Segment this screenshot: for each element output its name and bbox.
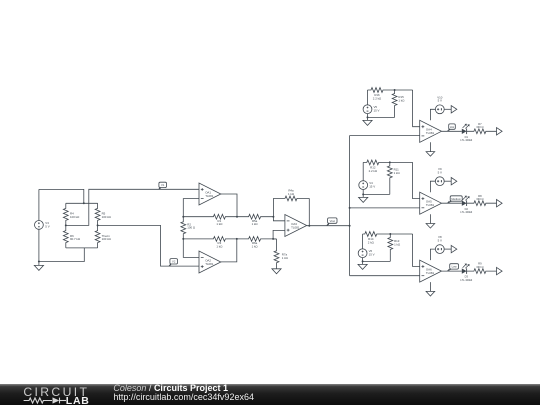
op-amp OA1 TL081 bbox=[199, 183, 221, 205]
svg-text:LTL-30/E3: LTL-30/E3 bbox=[460, 278, 472, 282]
resistor R7a 1k to ground bbox=[274, 239, 279, 269]
supply arrow flag bbox=[451, 245, 457, 252]
svg-text:15 V: 15 V bbox=[374, 109, 380, 113]
svg-text:V2: V2 bbox=[172, 260, 176, 264]
resistor R9 330 Ohm bbox=[467, 269, 497, 274]
ground at OA6 bbox=[426, 291, 435, 296]
svg-text:Hot: Hot bbox=[450, 125, 454, 129]
svg-text:5 V: 5 V bbox=[45, 225, 49, 229]
wire bus to OA4 inverting input bbox=[350, 135, 420, 137]
svg-text:1 kΩ: 1 kΩ bbox=[394, 243, 401, 247]
wire divider bottom rail bbox=[363, 260, 391, 262]
svg-text:TL081: TL081 bbox=[205, 194, 214, 198]
svg-text:Vout: Vout bbox=[330, 219, 336, 223]
op-amp OA4 TL081 comparator bbox=[420, 120, 442, 142]
svg-text:100 Ω: 100 Ω bbox=[187, 226, 196, 230]
output arrow flag bbox=[497, 128, 503, 135]
svg-text:2.2 kΩ: 2.2 kΩ bbox=[373, 96, 382, 100]
wire OA3 output to bus bbox=[307, 225, 350, 227]
wire R5a node to OA3 inverting input bbox=[273, 198, 285, 220]
net flag Low bbox=[450, 264, 459, 269]
node bridge mid-left bbox=[65, 224, 67, 226]
wire divider bottom rail bbox=[363, 193, 390, 195]
wire OA4 output to LED bbox=[442, 130, 462, 132]
resistor R14 2 k&#937; divider top bbox=[363, 232, 413, 237]
svg-text:5 V: 5 V bbox=[438, 99, 442, 103]
footer title text bbox=[113, 384, 228, 393]
supply arrow flag bbox=[451, 178, 457, 185]
op-amp OA5 V- ground pin bbox=[429, 214, 431, 223]
resistor R5 100k bbox=[95, 203, 100, 225]
op-amp OA6 V- ground pin bbox=[429, 282, 431, 291]
svg-text:LTL-30/E3: LTL-30/E3 bbox=[460, 210, 472, 214]
wire mid-left tap to V1 net bbox=[66, 189, 199, 225]
svg-text:TL081: TL081 bbox=[205, 262, 214, 266]
op-amp OA5 TL081 comparator bbox=[420, 192, 442, 214]
svg-text:1 kΩ: 1 kΩ bbox=[216, 222, 223, 226]
wire divider to op-amp non-inverting input bbox=[413, 234, 420, 267]
output arrow flag bbox=[497, 200, 503, 207]
resistor R3 1k bbox=[183, 237, 237, 242]
supply arrow flag bbox=[451, 106, 457, 113]
svg-text:1 kΩ: 1 kΩ bbox=[288, 192, 295, 196]
svg-text:5 V: 5 V bbox=[438, 171, 442, 175]
output arrow flag bbox=[497, 267, 503, 274]
resistor R1 1k bbox=[183, 214, 237, 219]
svg-text:V1: V1 bbox=[161, 183, 165, 187]
wire divider to op-amp non-inverting input bbox=[413, 162, 420, 198]
wire bridge bottom to ground rail bbox=[39, 248, 84, 262]
svg-text:100 kΩ: 100 kΩ bbox=[102, 215, 112, 219]
voltage source V10 5V supply bbox=[435, 105, 444, 114]
op-amp OA6 V+ supply pin bbox=[430, 249, 435, 260]
svg-text:TL081: TL081 bbox=[291, 225, 300, 229]
svg-text:15 V: 15 V bbox=[369, 253, 375, 257]
resistor R8 330 Ohm bbox=[467, 201, 497, 206]
wire divider to op-amp non-inverting input bbox=[413, 90, 420, 127]
wire V10 to supply flag bbox=[444, 108, 451, 110]
wire OA1 output to R1 node bbox=[221, 194, 237, 217]
wire mid-right tap to V2 net bbox=[98, 225, 199, 266]
CircuitLab logo wordmark bbox=[23, 386, 89, 398]
voltage source V3 5V bbox=[35, 221, 44, 230]
wire divider bottom rail bbox=[368, 116, 395, 118]
op-amp OA4 V- ground pin bbox=[429, 142, 431, 151]
resistor R16 2.2 k&#937; divider top bbox=[368, 88, 413, 93]
net flag Hot bbox=[449, 124, 456, 129]
op-amp OA4 V+ supply pin bbox=[430, 109, 435, 120]
svg-text:90.7 kΩ: 90.7 kΩ bbox=[70, 237, 81, 241]
ground at R7a bbox=[272, 269, 281, 274]
svg-text:2 kΩ: 2 kΩ bbox=[368, 240, 375, 244]
logo resistor-diode graphic bbox=[0, 396, 96, 405]
ground at OA4 bbox=[426, 152, 435, 157]
resistor R5a 1k bbox=[237, 214, 273, 219]
ground at OA5 bbox=[426, 224, 435, 229]
net flag V1 bbox=[159, 182, 167, 187]
svg-text:Medium: Medium bbox=[451, 197, 461, 201]
svg-text:1 kΩ: 1 kΩ bbox=[252, 244, 259, 248]
svg-text:LTL-30/E3: LTL-30/E3 bbox=[460, 138, 472, 142]
op-amp OA2 TL081 bbox=[199, 251, 221, 273]
svg-text:1 kΩ: 1 kΩ bbox=[394, 171, 401, 175]
LED D3 LTL-30/E3 bbox=[462, 268, 467, 273]
resistor Therm 100k bbox=[95, 225, 100, 248]
svg-text:1 kΩ: 1 kΩ bbox=[398, 99, 405, 103]
resistor R12 2.2 k&#937; divider top bbox=[363, 160, 412, 165]
svg-text:330 Ω: 330 Ω bbox=[476, 125, 483, 129]
net flag Medium bbox=[450, 196, 462, 201]
svg-text:330 Ω: 330 Ω bbox=[476, 265, 483, 269]
LED D2 LTL-30/E3 bbox=[462, 201, 467, 206]
voltage source V8 5V supply bbox=[435, 245, 444, 254]
svg-text:100 kΩ: 100 kΩ bbox=[102, 237, 112, 241]
svg-text:100 kΩ: 100 kΩ bbox=[70, 215, 80, 219]
wire R4a to OA3 output bbox=[308, 198, 310, 225]
wire bridge top rail bbox=[66, 202, 98, 204]
svg-text:1 kΩ: 1 kΩ bbox=[282, 256, 289, 260]
voltage source V4 15 V bbox=[362, 162, 364, 180]
wire OA2 output to R3 node bbox=[221, 239, 237, 262]
svg-text:2.2 kΩ: 2.2 kΩ bbox=[369, 169, 378, 173]
wire bus to OA6 inverting input bbox=[350, 275, 420, 277]
wire vertical output bus bbox=[349, 136, 351, 276]
ground at V5 bbox=[367, 117, 369, 120]
ground at V3 bbox=[38, 262, 40, 266]
wire OA2 inverting input bbox=[183, 239, 199, 258]
svg-text:330 Ω: 330 Ω bbox=[476, 197, 483, 201]
resistor R6 90.7k bbox=[63, 225, 68, 248]
svg-text:TL081: TL081 bbox=[426, 271, 435, 275]
wire bus to OA5 inverting input bbox=[350, 207, 420, 209]
svg-text:TL081: TL081 bbox=[426, 203, 435, 207]
wire OA3 non-inverting input bbox=[273, 230, 285, 239]
LED D1 LTL-30/E3 bbox=[462, 129, 467, 134]
wire OA1 inverting input bbox=[183, 199, 199, 217]
voltage source V5 15 V bbox=[367, 90, 369, 105]
svg-text:1 kΩ: 1 kΩ bbox=[252, 222, 259, 226]
svg-text:1 kΩ: 1 kΩ bbox=[216, 244, 223, 248]
net flag Vout bbox=[328, 218, 337, 223]
resistor R6a 1k bbox=[237, 237, 277, 242]
svg-text:TL081: TL081 bbox=[426, 131, 435, 135]
wire OA6 output to LED bbox=[442, 270, 462, 272]
resistor R7 330 Ohm bbox=[467, 129, 497, 134]
resistor R15 1 k&#937; divider bottom bbox=[392, 90, 397, 117]
op-amp OA5 V+ supply pin bbox=[430, 181, 435, 192]
ground at V4 bbox=[362, 194, 364, 197]
wire OA5 output to LED bbox=[442, 202, 462, 204]
ground at V6 bbox=[362, 261, 364, 264]
resistor R13 1 k&#937; divider bottom bbox=[388, 234, 393, 261]
svg-text:15 V: 15 V bbox=[369, 185, 375, 189]
wire bridge bottom rail bbox=[66, 247, 98, 249]
net flag V2 bbox=[170, 259, 178, 264]
node bridge mid-right bbox=[97, 224, 99, 226]
resistor R11 1 k&#937; divider bottom bbox=[387, 162, 392, 194]
svg-text:Low: Low bbox=[452, 265, 457, 269]
op-amp OA6 TL081 comparator bbox=[420, 260, 442, 282]
svg-text:5 V: 5 V bbox=[438, 238, 442, 242]
wire V9 to supply flag bbox=[444, 180, 451, 182]
wire source-top to bridge top bbox=[39, 189, 84, 203]
resistor R4a 1k feedback bbox=[273, 196, 309, 201]
op-amp OA3 TL081 difference amp bbox=[285, 215, 307, 237]
voltage source V9 5V supply bbox=[435, 177, 444, 186]
resistor R4 100k bbox=[63, 203, 68, 225]
wire V8 to supply flag bbox=[444, 248, 451, 250]
resistor R2 100 Ohm bbox=[181, 217, 186, 239]
voltage source V6 15 V bbox=[362, 234, 364, 249]
